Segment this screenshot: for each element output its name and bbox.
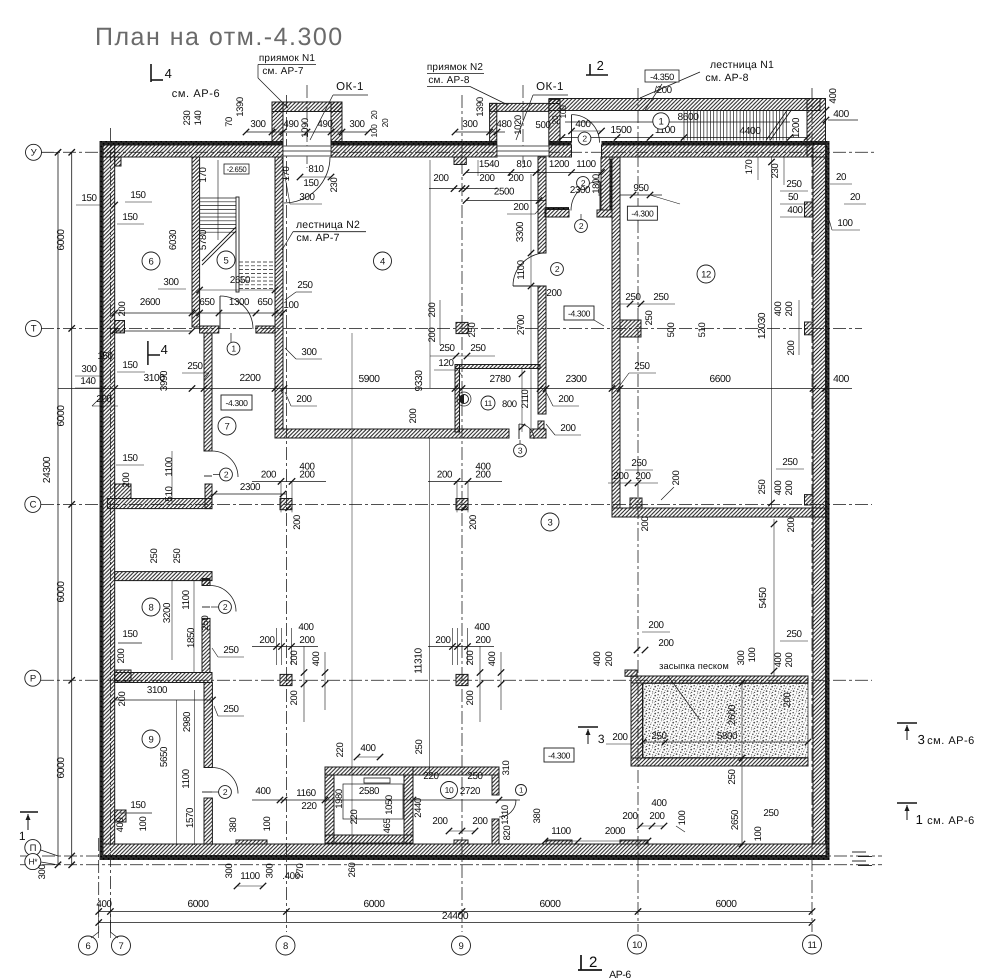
- svg-text:300: 300: [81, 364, 97, 375]
- mid dimension chain: [58, 388, 852, 390]
- room circle 6: [142, 252, 160, 270]
- svg-text:8: 8: [149, 602, 154, 613]
- svg-text:400: 400: [575, 119, 591, 130]
- svg-text:6030: 6030: [168, 229, 179, 250]
- elevator shaft bottom wall: [325, 835, 413, 843]
- svg-text:10: 10: [632, 940, 642, 951]
- wall V2 lower: [538, 286, 546, 414]
- svg-text:200: 200: [784, 481, 795, 496]
- svg-text:2650: 2650: [730, 809, 741, 830]
- svg-text:400: 400: [474, 622, 490, 633]
- svg-text:засыпка песком: засыпка песком: [659, 661, 729, 671]
- free column axis8-P: [280, 674, 292, 685]
- svg-text:2300: 2300: [570, 185, 591, 196]
- label -2.650 box: [224, 164, 249, 174]
- pit N2 dim line: [455, 131, 505, 133]
- free column axis9-T: [456, 322, 468, 333]
- svg-text:400: 400: [360, 743, 376, 754]
- svg-text:200: 200: [116, 649, 127, 664]
- svg-text:1100: 1100: [551, 826, 571, 837]
- svg-text:3: 3: [518, 446, 523, 456]
- svg-text:1: 1: [659, 116, 664, 127]
- svg-text:-4.300: -4.300: [548, 751, 571, 761]
- wall C3 vertical room7: [204, 333, 212, 451]
- door OK-1 top left arc: [284, 157, 330, 203]
- room9 east wall upper: [204, 683, 212, 768]
- extension line room9 chain: [194, 690, 196, 845]
- room 11 drain: [460, 395, 469, 404]
- wall stub at T west of door: [200, 326, 219, 333]
- svg-text:200: 200: [435, 635, 451, 646]
- room circle 7: [218, 417, 236, 435]
- section mark 2 bottom: [578, 969, 602, 971]
- svg-text:200: 200: [432, 816, 448, 827]
- axis circle 11: [803, 935, 822, 954]
- svg-text:400: 400: [255, 786, 271, 797]
- svg-text:3: 3: [918, 732, 925, 747]
- elevator inner cab rect: [343, 784, 403, 819]
- svg-text:380: 380: [532, 809, 543, 824]
- svg-text:250: 250: [644, 311, 655, 326]
- elevation box -4.300 room12: [627, 206, 657, 220]
- svg-text:9: 9: [149, 734, 154, 745]
- right wall step: [805, 202, 814, 217]
- svg-text:300: 300: [265, 864, 276, 879]
- svg-text:С: С: [30, 500, 37, 511]
- svg-text:1850: 1850: [186, 627, 197, 648]
- room12 south wall C12: [612, 508, 826, 517]
- wall V3 room12 west: [612, 157, 620, 508]
- section flag 1 right: [897, 802, 917, 804]
- svg-text:1050: 1050: [384, 795, 395, 815]
- svg-text:270: 270: [295, 864, 306, 879]
- svg-text:6000: 6000: [363, 899, 385, 910]
- svg-text:200: 200: [612, 732, 628, 743]
- door tag 2 niche: [577, 177, 590, 190]
- svg-text:200: 200: [658, 638, 674, 649]
- svg-text:200: 200: [786, 518, 797, 533]
- pit N2 right wall (stair block left): [549, 99, 560, 145]
- svg-text:400: 400: [833, 374, 850, 385]
- niche south stub: [545, 207, 569, 210]
- extension line x352: [351, 333, 353, 860]
- svg-text:2300: 2300: [240, 482, 261, 493]
- svg-text:200: 200: [508, 173, 524, 184]
- svg-text:100: 100: [369, 124, 379, 138]
- svg-text:6000: 6000: [539, 899, 561, 910]
- axis circle Т: [26, 320, 42, 336]
- svg-text:200: 200: [465, 651, 476, 666]
- svg-text:100: 100: [837, 218, 853, 229]
- axis circle 8: [276, 936, 295, 955]
- stair N1 entry door arc: [571, 115, 573, 143]
- svg-text:300: 300: [301, 347, 317, 358]
- lobby dim line: [466, 172, 602, 174]
- svg-text:650: 650: [199, 297, 215, 308]
- svg-text:2000: 2000: [605, 826, 626, 837]
- section flag 1 left bottom: [20, 811, 38, 813]
- svg-text:8600: 8600: [677, 112, 699, 123]
- svg-text:20: 20: [380, 118, 390, 127]
- svg-text:220: 220: [423, 771, 439, 782]
- bottom wall bump 1: [454, 840, 468, 844]
- section mark 4 top: [150, 64, 152, 82]
- svg-text:1310: 1310: [500, 805, 511, 825]
- axis circle П: [25, 840, 41, 856]
- elevator door slot: [364, 778, 390, 783]
- left wall pilaster at C: [115, 484, 131, 499]
- svg-text:2: 2: [582, 134, 587, 144]
- wall C3 lower jamb: [205, 484, 212, 509]
- svg-text:5900: 5900: [358, 374, 380, 385]
- sand pit inner dim line: [643, 741, 808, 743]
- svg-text:1800: 1800: [591, 174, 602, 194]
- svg-text:200: 200: [465, 691, 476, 706]
- svg-text:310: 310: [501, 761, 512, 776]
- svg-text:220: 220: [301, 801, 317, 812]
- stair N1 enclosure right wall: [807, 99, 826, 158]
- svg-text:200: 200: [472, 816, 488, 827]
- svg-text:380: 380: [228, 818, 239, 833]
- svg-text:2: 2: [224, 470, 229, 480]
- axis circle 6: [79, 936, 98, 955]
- svg-text:4400: 4400: [739, 126, 761, 137]
- svg-text:300: 300: [163, 277, 179, 288]
- svg-text:200: 200: [289, 651, 300, 666]
- stair N1 enclosure top wall: [549, 99, 820, 111]
- svg-text:300: 300: [299, 192, 315, 203]
- axis circle Р: [25, 670, 41, 686]
- svg-text:200: 200: [786, 341, 797, 356]
- svg-text:1200: 1200: [549, 159, 570, 170]
- dim row line at T: [115, 330, 192, 332]
- svg-text:см. АР-8: см. АР-8: [705, 72, 748, 84]
- room9 east wall lower: [204, 798, 212, 844]
- svg-text:1090: 1090: [300, 118, 311, 138]
- svg-text:см. АР-7: см. АР-7: [262, 66, 304, 77]
- top outer wall segment 4: [602, 145, 814, 157]
- svg-text:2500: 2500: [494, 187, 515, 198]
- svg-text:400: 400: [773, 481, 784, 496]
- door tag 2 below niche: [575, 220, 588, 233]
- axis line 7 (vertical): [109, 128, 111, 932]
- room circle 4: [374, 252, 392, 270]
- room8 east wall lower: [202, 618, 210, 672]
- svg-text:400: 400: [592, 652, 603, 667]
- svg-text:10: 10: [445, 785, 454, 795]
- door room7 arc: [212, 451, 238, 477]
- axis line У (horizontal): [41, 151, 876, 153]
- room8 east wall upper: [202, 579, 210, 586]
- svg-text:250: 250: [223, 645, 239, 656]
- pit N1 top wall: [272, 102, 342, 112]
- svg-text:100: 100: [747, 648, 758, 663]
- svg-text:1: 1: [916, 812, 923, 827]
- room circle 12: [697, 265, 715, 283]
- door tag 2 room7: [220, 468, 233, 481]
- svg-text:лестница N1: лестница N1: [710, 59, 774, 71]
- axis line 9 (vertical): [461, 95, 463, 932]
- svg-text:140: 140: [80, 376, 96, 387]
- top wall pier at axis 9: [454, 157, 466, 165]
- svg-text:1100: 1100: [181, 589, 192, 609]
- svg-text:5780: 5780: [198, 229, 209, 250]
- svg-text:11: 11: [484, 399, 492, 408]
- svg-text:-4.300: -4.300: [226, 398, 249, 408]
- outer wall top dark liner segment 3: [549, 141, 572, 145]
- svg-text:100: 100: [677, 811, 688, 826]
- room circle 9: [142, 730, 160, 748]
- svg-text:250: 250: [467, 771, 483, 782]
- svg-text:70: 70: [224, 117, 235, 127]
- svg-text:250: 250: [631, 458, 647, 469]
- V3 pilaster at T: [620, 320, 641, 337]
- svg-text:250: 250: [786, 629, 802, 640]
- svg-text:6: 6: [149, 256, 154, 267]
- dim line hall vertical 2110: [521, 369, 523, 432]
- outer wall dark liner bottom: [100, 856, 829, 861]
- svg-text:200: 200: [648, 620, 664, 631]
- svg-text:200: 200: [468, 515, 479, 530]
- elevator dim chain: [252, 799, 520, 801]
- svg-text:200: 200: [292, 515, 303, 530]
- svg-text:2: 2: [223, 602, 228, 612]
- left wall pilaster at T: [115, 321, 125, 333]
- svg-text:2: 2: [223, 787, 228, 797]
- svg-text:200: 200: [671, 471, 682, 486]
- svg-text:150: 150: [130, 800, 146, 811]
- bottom wall bump 3: [620, 840, 648, 844]
- wall P between room8 and room9: [115, 673, 212, 683]
- svg-text:3: 3: [548, 517, 553, 528]
- svg-text:170: 170: [198, 166, 209, 182]
- svg-text:4: 4: [161, 342, 168, 357]
- free column axis9-P: [456, 674, 468, 685]
- C12 pilaster at axis 10: [630, 498, 642, 508]
- svg-text:2: 2: [597, 58, 604, 73]
- dim 1540 ext line: [477, 160, 479, 176]
- stair N2 cut diagonal: [202, 231, 236, 265]
- room10 east wall lower: [492, 819, 499, 844]
- door tag 1: [227, 342, 240, 355]
- svg-text:300: 300: [250, 119, 266, 130]
- left wall pilaster below P: [115, 810, 126, 822]
- right outer wall: [813, 157, 826, 844]
- svg-text:200: 200: [261, 469, 277, 480]
- svg-text:100: 100: [753, 827, 764, 842]
- svg-text:см. АР-6: см. АР-6: [927, 735, 975, 747]
- svg-text:6000: 6000: [56, 757, 67, 779]
- door tag 1 room10: [516, 785, 527, 796]
- svg-text:1300: 1300: [229, 297, 250, 308]
- outer wall top dark liner segment 4: [602, 141, 827, 145]
- svg-text:5650: 5650: [159, 746, 170, 767]
- svg-text:20: 20: [850, 192, 861, 203]
- svg-text:-4.300: -4.300: [631, 209, 654, 219]
- room circle 3: [541, 513, 559, 531]
- svg-text:200: 200: [117, 692, 128, 707]
- svg-text:200: 200: [558, 394, 574, 405]
- svg-text:лестница N2: лестница N2: [296, 219, 360, 231]
- door room11 arc: [519, 424, 534, 439]
- svg-text:9: 9: [459, 941, 464, 952]
- svg-text:1500: 1500: [610, 125, 632, 136]
- svg-text:250: 250: [763, 808, 779, 819]
- door niche arc: [571, 182, 600, 211]
- svg-text:3300: 3300: [515, 221, 526, 242]
- svg-text:2650: 2650: [230, 275, 251, 286]
- extension line 9330: [429, 160, 431, 388]
- svg-text:1100: 1100: [576, 159, 596, 170]
- svg-text:250: 250: [786, 179, 802, 190]
- svg-text:200: 200: [259, 635, 275, 646]
- svg-text:200: 200: [117, 302, 128, 317]
- svg-text:100: 100: [262, 817, 273, 832]
- svg-text:-2.650: -2.650: [227, 165, 248, 174]
- right wall pilaster at C: [805, 495, 814, 505]
- axis circle Н: [25, 854, 41, 870]
- svg-text:План на отм.-4.300: План на отм.-4.300: [95, 23, 344, 51]
- stair N2 left wall A1: [192, 157, 200, 327]
- svg-text:150: 150: [81, 193, 97, 204]
- svg-text:200: 200: [427, 328, 438, 343]
- svg-text:см. АР-6: см. АР-6: [172, 88, 220, 100]
- svg-text:150: 150: [122, 629, 138, 640]
- top outer wall segment 3: [549, 145, 572, 157]
- svg-text:200: 200: [649, 811, 665, 822]
- svg-text:220: 220: [335, 743, 346, 758]
- svg-text:200: 200: [613, 471, 629, 482]
- elevator shaft right wall: [404, 775, 413, 843]
- extension line 11310: [429, 438, 431, 776]
- axis circle У: [26, 144, 42, 160]
- axis leader 7: [109, 912, 111, 939]
- svg-text:2: 2: [579, 221, 584, 231]
- svg-text:2780: 2780: [489, 374, 511, 385]
- svg-text:2: 2: [555, 264, 560, 274]
- svg-text:1020: 1020: [513, 115, 524, 135]
- outer wall top dark liner segment 2: [331, 141, 497, 145]
- svg-text:24400: 24400: [442, 911, 469, 922]
- svg-text:12030: 12030: [757, 312, 768, 339]
- stair N2 right wall A2: [275, 157, 283, 429]
- svg-text:250: 250: [187, 361, 203, 372]
- elevation box -4.300 hall bottom: [544, 748, 574, 762]
- svg-text:150: 150: [122, 212, 138, 223]
- axis circle 7: [112, 936, 131, 955]
- pit N1 centerline: [306, 85, 308, 168]
- axis line П (horizontal): [20, 855, 882, 857]
- svg-text:9330: 9330: [414, 370, 425, 392]
- sand fill: [643, 684, 808, 758]
- axis line Н (horizontal): [20, 864, 882, 866]
- svg-text:Т: Т: [31, 324, 37, 335]
- svg-text:8: 8: [283, 941, 288, 952]
- svg-text:250: 250: [467, 323, 478, 338]
- wall V3a dark liner: [610, 159, 613, 210]
- svg-text:250: 250: [470, 343, 486, 354]
- stair N1 treads: [684, 111, 786, 141]
- svg-text:20: 20: [369, 110, 379, 119]
- svg-text:490: 490: [283, 119, 299, 130]
- svg-text:приямок N2: приямок N2: [427, 62, 484, 73]
- stair N1 dim line: [562, 137, 807, 139]
- door tag 2 on V2: [551, 263, 564, 276]
- svg-text:800: 800: [502, 399, 517, 410]
- svg-text:260: 260: [347, 863, 358, 878]
- door room10 arc: [499, 800, 516, 817]
- svg-text:400: 400: [773, 302, 784, 317]
- svg-text:400: 400: [96, 899, 112, 910]
- sand pit right dim chain: [741, 683, 743, 844]
- svg-text:200: 200: [437, 469, 453, 480]
- outer wall top dark liner segment 1: [100, 141, 284, 145]
- svg-text:400: 400: [115, 818, 126, 833]
- bottom wall bump room9: [236, 840, 267, 844]
- svg-text:11310: 11310: [414, 647, 425, 673]
- elevation box -4.300 room7: [221, 395, 252, 410]
- wall stub at T east of door: [256, 326, 275, 333]
- svg-text:200: 200: [289, 691, 300, 706]
- svg-text:1: 1: [231, 344, 236, 354]
- svg-text:2600: 2600: [727, 704, 738, 725]
- svg-text:2980: 2980: [182, 711, 193, 732]
- svg-text:400: 400: [298, 622, 314, 633]
- svg-text:2700: 2700: [516, 314, 527, 335]
- svg-text:250: 250: [634, 361, 650, 372]
- pit N1 dim line: [246, 131, 368, 133]
- svg-text:250: 250: [223, 704, 239, 715]
- pit N1 right wall: [331, 102, 342, 145]
- svg-text:1160: 1160: [296, 788, 316, 799]
- room circle 8: [142, 598, 160, 616]
- svg-text:50: 50: [788, 192, 799, 203]
- stair N1 walk line: [565, 121, 790, 123]
- svg-text:220: 220: [349, 810, 360, 825]
- room circle 10: [441, 782, 458, 799]
- room10 north wall: [413, 767, 499, 775]
- door V2 arc: [513, 253, 546, 286]
- pit N2 left wall: [490, 103, 497, 145]
- svg-text:200: 200: [475, 469, 491, 480]
- svg-text:400: 400: [833, 109, 849, 120]
- outer wall dark liner right: [826, 141, 830, 860]
- svg-text:200: 200: [604, 652, 615, 667]
- svg-text:12: 12: [701, 269, 711, 280]
- svg-text:ОК-1: ОК-1: [336, 81, 364, 93]
- svg-text:250: 250: [651, 731, 667, 742]
- extension line room8 chain: [171, 580, 173, 660]
- svg-text:100: 100: [138, 817, 149, 832]
- dim row line room6: [115, 312, 283, 314]
- elevator shaft left wall: [325, 775, 334, 843]
- svg-text:6: 6: [86, 941, 91, 952]
- svg-text:см. АР-7: см. АР-7: [296, 232, 339, 244]
- axis line С (horizontal): [41, 503, 872, 505]
- svg-text:230: 230: [182, 111, 193, 126]
- svg-text:1100: 1100: [240, 871, 260, 882]
- svg-text:6000: 6000: [187, 899, 209, 910]
- section flag 3 sand pit: [578, 726, 598, 728]
- svg-text:5800: 5800: [717, 731, 738, 742]
- svg-text:2300: 2300: [565, 374, 587, 385]
- stair N2 treads upper flight: [200, 198, 236, 232]
- svg-text:150: 150: [122, 360, 138, 371]
- svg-text:1100: 1100: [164, 456, 175, 476]
- svg-text:150: 150: [130, 190, 146, 201]
- svg-text:приямок N1: приямок N1: [259, 53, 316, 64]
- svg-text:250: 250: [439, 343, 455, 354]
